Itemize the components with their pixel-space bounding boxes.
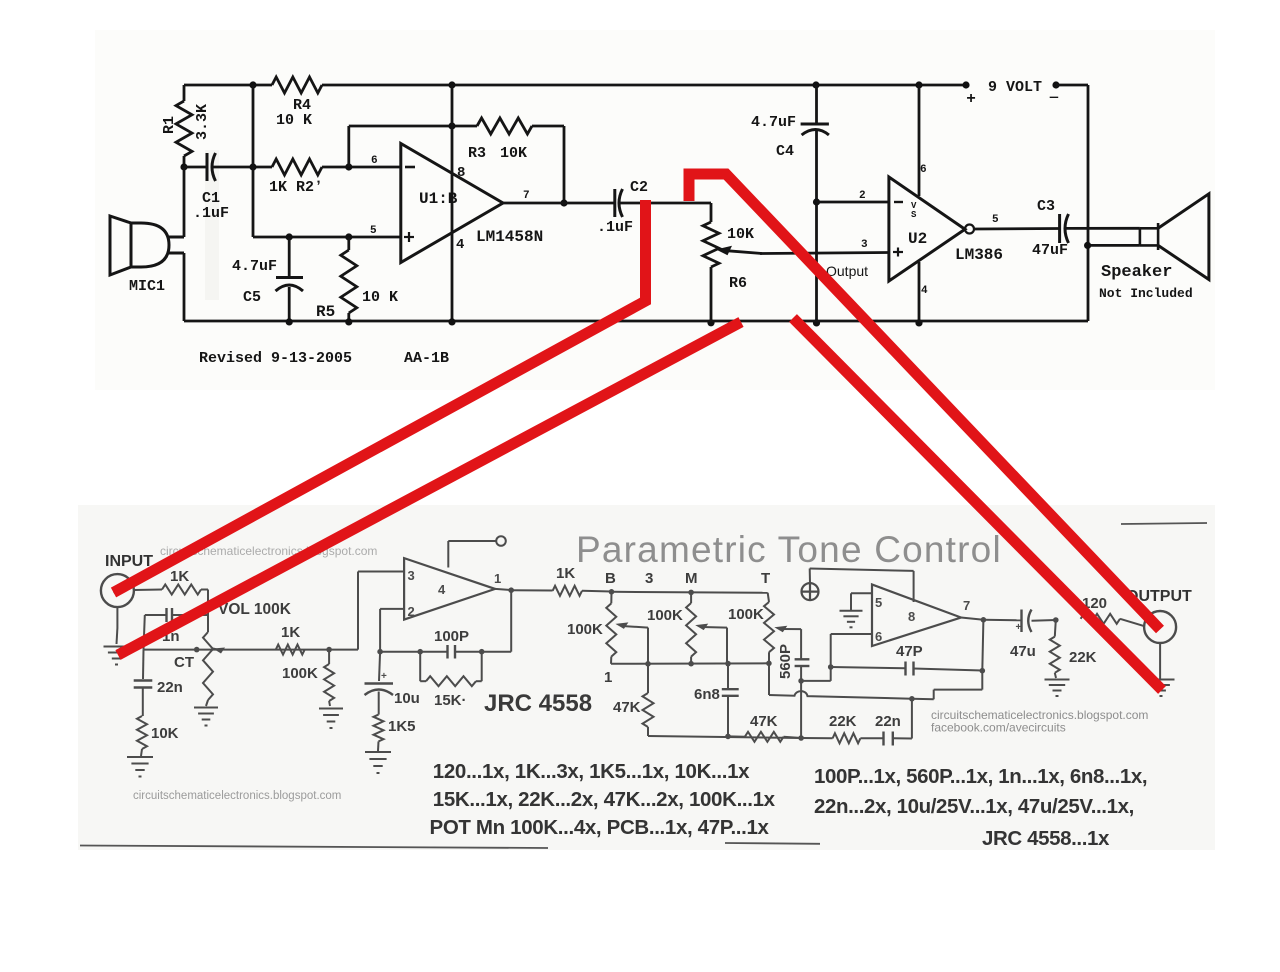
capacitor C3 [1058, 214, 1061, 243]
T wiper [774, 626, 787, 633]
svg-text:47u: 47u [1010, 643, 1036, 660]
svg-text:1K: 1K [170, 568, 189, 585]
resistor 10K input [137, 716, 147, 749]
wire mic top terminal [168, 236, 184, 239]
capacitor 6n8 [727, 664, 729, 690]
wire bias to pin5 [253, 236, 401, 239]
node R4 right / V+ [448, 81, 455, 88]
svg-text:C2: C2 [630, 179, 648, 196]
svg-text:INPUT: INPUT [105, 553, 153, 570]
resistor 1K second [276, 645, 305, 655]
svg-text:C4: C4 [776, 143, 794, 160]
red annotation line: R6 bottom to output ground [793, 318, 1162, 690]
svg-text:47K: 47K [750, 713, 778, 730]
wire A1 output [495, 589, 511, 590]
svg-text:22n: 22n [875, 713, 901, 730]
svg-text:U1:B: U1:B [419, 190, 458, 208]
ground 100K shunt [319, 709, 343, 729]
node C4/pin2 [813, 198, 820, 205]
bus 1 [611, 662, 769, 665]
wire mic bottom to ground rail [183, 253, 186, 321]
svg-text:47P: 47P [896, 643, 923, 660]
svg-text:6: 6 [371, 155, 378, 167]
red annotation line: R6 top to INPUT jack [114, 200, 646, 593]
svg-text:T: T [761, 570, 770, 587]
bottom bus [648, 736, 801, 738]
wire U1 power vertical pins 8/4 [451, 85, 454, 321]
wire R3 right [532, 125, 564, 128]
speaker (driver + cone) [1139, 228, 1142, 245]
red annotation line: input ground to R6 bottom [118, 322, 741, 655]
ground 22K [1045, 680, 1070, 697]
svg-text:22K: 22K [829, 713, 857, 730]
wire ground rail [184, 320, 1088, 323]
battery - terminal [1052, 81, 1059, 88]
resistor 22K output [1055, 620, 1056, 637]
wire C2 to R6 [620, 202, 711, 205]
svg-text:LM386: LM386 [955, 246, 1003, 264]
svg-text:1: 1 [494, 571, 501, 586]
capacitor C1 [206, 153, 209, 181]
svg-text:U2: U2 [908, 230, 927, 248]
T bottom path with hop [769, 691, 912, 699]
wire top rail to + terminal [322, 84, 966, 87]
svg-text:100P: 100P [434, 628, 469, 645]
node C4 top [812, 81, 819, 88]
wire speaker return [1088, 244, 1140, 247]
node speaker return [1084, 242, 1091, 249]
battery + terminal [962, 81, 969, 88]
ground output jack [1148, 680, 1175, 697]
R6 wiper arrow [728, 251, 762, 254]
resistor R5 [347, 237, 350, 250]
svg-text:1K5: 1K5 [388, 718, 416, 735]
node U2 pin4 bottom [915, 319, 922, 326]
wire right vertical to ground rail [1087, 85, 1090, 321]
svg-text:4: 4 [456, 237, 464, 253]
border fragment top-right [1121, 523, 1207, 524]
svg-text:VOL 100K: VOL 100K [218, 601, 292, 618]
svg-text:POT Mn 100K...4x, PCB...1x, 47: POT Mn 100K...4x, PCB...1x, 47P...1x [430, 816, 770, 839]
ground VOL [194, 708, 218, 726]
svg-text:560P: 560P [777, 644, 794, 679]
U2 minus input [894, 201, 903, 203]
U1 minus input [405, 166, 415, 169]
svg-text:5: 5 [875, 595, 882, 610]
svg-text:Output: Output [826, 263, 868, 279]
svg-text:+: + [1016, 622, 1022, 633]
svg-text:S: S [911, 210, 917, 220]
wire R6 wiper to U2 pin3 [760, 253, 889, 254]
svg-text:2: 2 [408, 604, 415, 619]
svg-text:.1uF: .1uF [193, 205, 229, 222]
border fragment bottom-mid [725, 842, 820, 845]
power symbol circle-plus [802, 583, 819, 600]
resistor 100K shunt [328, 650, 330, 664]
capacitor 560P [800, 629, 802, 659]
capacitor 1n [145, 614, 166, 616]
potentiometer 100K T [768, 593, 769, 602]
capacitor C5 [288, 237, 291, 276]
svg-text:.1uF: .1uF [597, 219, 633, 236]
svg-text:5: 5 [992, 214, 999, 226]
svg-text:+: + [966, 90, 976, 108]
resistor 47K bottom [745, 732, 784, 742]
node R4 left / bias [249, 81, 256, 88]
svg-text:120...1x, 1K...3x, 1K5...1x, 1: 120...1x, 1K...3x, 1K5...1x, 10K...1x [433, 760, 750, 783]
svg-text:Parametric Tone Control: Parametric Tone Control [576, 529, 1002, 570]
wire - terminal to right vertical [1056, 84, 1088, 87]
node U1 pin4 bottom [448, 318, 455, 325]
wire U2 pin2 [817, 201, 889, 204]
potentiometer 100K M [690, 592, 692, 603]
svg-text:1K: 1K [556, 565, 575, 582]
svg-text:10 K: 10 K [362, 289, 398, 306]
resistor 1K third [511, 589, 552, 591]
svg-text:10u: 10u [394, 690, 420, 707]
potentiometer 100K B [610, 592, 612, 604]
resistor 1K input [162, 585, 201, 595]
A1 power stub [447, 541, 449, 568]
wire feedback R3 left [347, 126, 350, 167]
svg-text:R3: R3 [468, 145, 486, 162]
svg-text:Not Included: Not Included [1099, 286, 1193, 301]
resistor 15K loop [419, 652, 421, 682]
wire fb to pin2 node [380, 651, 420, 653]
svg-text:circuitschematicelectronics.bl: circuitschematicelectronics.blogspot.com [133, 790, 341, 802]
output jack [1144, 611, 1176, 643]
B wiper [615, 622, 628, 629]
op-amp U1:B [401, 144, 503, 263]
wire U2 pin6 [918, 85, 921, 196]
svg-text:22K: 22K [1069, 649, 1097, 666]
U2 plus input [893, 251, 903, 253]
capacitor C4 [815, 85, 818, 123]
wire pin6 riser [801, 680, 831, 682]
svg-text:22n: 22n [157, 679, 183, 696]
wire wiper bus [144, 649, 359, 651]
node R2/R3 junction [345, 163, 352, 170]
svg-text:M: M [685, 570, 698, 587]
svg-text:6: 6 [875, 629, 882, 644]
microphone MIC1 [110, 216, 131, 275]
wire CT column [144, 615, 145, 650]
red annotation line: R6 bracket to OUTPUT jack [689, 174, 1160, 630]
svg-text:3: 3 [861, 239, 868, 251]
wire U2 pin4 [918, 262, 921, 322]
capacitor 47P [831, 667, 906, 668]
svg-text:+: + [381, 671, 387, 682]
svg-text:15K...1x, 22K...2x, 47K...2x,: 15K...1x, 22K...2x, 47K...2x, 100K...1x [433, 788, 776, 811]
svg-text:10K: 10K [500, 145, 527, 162]
wire 1K to pot top [201, 589, 208, 591]
feedback drop [510, 590, 512, 652]
svg-text:47uF: 47uF [1032, 242, 1068, 259]
svg-text:100K: 100K [647, 607, 683, 624]
node R5 bottom [345, 318, 352, 325]
wire top rail left segment [184, 84, 272, 87]
svg-text:100K: 100K [728, 606, 764, 623]
node 1K/100K [326, 647, 332, 653]
resistor R1 [183, 85, 186, 101]
node C5 top [286, 233, 293, 240]
op-amp U2 [889, 177, 965, 281]
svg-text:MIC1: MIC1 [129, 278, 165, 295]
svg-text:CT: CT [174, 654, 194, 671]
svg-text:15K·: 15K· [434, 692, 467, 709]
resistor R4 [272, 77, 322, 93]
wire A1 pin2 [380, 608, 404, 610]
wire jack to 1K [134, 589, 162, 592]
svg-text:C5: C5 [243, 289, 261, 306]
svg-text:7: 7 [523, 190, 530, 202]
op-amp A2 [872, 585, 961, 647]
wire mic bottom terminal [168, 252, 184, 255]
svg-text:3.3K: 3.3K [194, 104, 211, 140]
capacitor 100P [455, 651, 482, 653]
svg-text:6: 6 [920, 164, 927, 176]
wire to A1 pin3 [357, 572, 359, 650]
ground 1K5 [365, 752, 391, 773]
svg-text:4.7uF: 4.7uF [232, 258, 277, 275]
capacitor 22n input [134, 679, 153, 681]
ground input jack [104, 647, 130, 665]
U2 output bubble [965, 225, 974, 234]
wire bias vertical [252, 85, 255, 237]
resistor R2 [272, 159, 322, 175]
svg-text:4.7uF: 4.7uF [751, 114, 796, 131]
wire C1 left [184, 166, 207, 169]
svg-text:2: 2 [859, 190, 866, 202]
capacitor 10u [379, 652, 380, 681]
op-amp A1 [404, 558, 495, 620]
resistor 47K left [647, 664, 649, 693]
node C1/R1/mic [180, 163, 187, 170]
top bus B-M-T [609, 589, 615, 595]
svg-text:9 VOLT: 9 VOLT [988, 79, 1042, 96]
wire C3 to speaker [1066, 227, 1140, 230]
wire R2 to inverting node [322, 166, 401, 169]
svg-text:1K R2ʼ: 1K R2ʼ [269, 179, 323, 196]
svg-text:4: 4 [438, 582, 446, 597]
resistor R3 [477, 118, 532, 134]
node C4 bottom [813, 319, 820, 326]
M wiper [695, 624, 708, 631]
wire jack to ground [116, 607, 118, 628]
node U2 pin6 top [915, 81, 922, 88]
capacitor C2 [613, 189, 616, 217]
svg-text:3: 3 [645, 570, 653, 587]
wire U2 output to C3 [974, 227, 1060, 230]
wire jack to ground [1159, 643, 1161, 679]
svg-text:5: 5 [370, 225, 377, 237]
resistor 120 [1081, 614, 1120, 624]
svg-text:LM1458N: LM1458N [476, 228, 543, 246]
svg-text:Speaker: Speaker [1101, 263, 1172, 282]
svg-text:facebook.com/avecircuits: facebook.com/avecircuits [931, 721, 1066, 735]
svg-text:100K: 100K [567, 621, 603, 638]
border fragment bottom-left [80, 846, 548, 849]
svg-text:100K: 100K [282, 665, 318, 682]
svg-text:3: 3 [408, 568, 415, 583]
wire 22n riser [911, 699, 913, 739]
svg-text:JRC 4558: JRC 4558 [484, 690, 592, 717]
svg-text:8: 8 [457, 165, 465, 181]
node bias crossing [249, 163, 256, 170]
resistor 22K bottom [801, 737, 833, 739]
svg-text:R1: R1 [161, 116, 178, 134]
node R3/output [560, 199, 567, 206]
wire C1 to R2 [213, 166, 272, 169]
ground pin5 [840, 611, 863, 628]
svg-text:B: B [605, 570, 616, 587]
svg-text:22n...2x, 10u/25V...1x, 47u/25: 22n...2x, 10u/25V...1x, 47u/25V...1x, [814, 795, 1134, 818]
svg-text:10K: 10K [727, 226, 754, 243]
potentiometer R6 [710, 203, 713, 222]
wire U1 output [503, 202, 615, 205]
capacitor 22n bottom [860, 737, 883, 739]
input jack [101, 574, 134, 607]
svg-text:47K: 47K [613, 699, 641, 716]
svg-text:8: 8 [908, 609, 915, 624]
svg-text:10 K: 10 K [276, 112, 312, 129]
svg-text:JRC 4558...1x: JRC 4558...1x [982, 827, 1110, 850]
node R3/V+ crossing [448, 122, 455, 129]
svg-text:C3: C3 [1037, 198, 1055, 215]
resistor 1K5 [374, 715, 384, 742]
svg-text:Revised 9-13-2005: Revised 9-13-2005 [199, 350, 352, 367]
svg-text:6n8: 6n8 [694, 686, 720, 703]
node R6 bottom [707, 319, 714, 326]
potentiometer VOL 100K [203, 632, 213, 700]
svg-text:100P...1x, 560P...1x, 1n...1x,: 100P...1x, 560P...1x, 1n...1x, 6n8...1x, [814, 765, 1147, 788]
svg-text:R6: R6 [729, 275, 747, 292]
wire 560P node to bottom bus [800, 681, 802, 738]
node wiper [194, 647, 200, 653]
svg-text:AA-1B: AA-1B [404, 350, 449, 367]
ground 10K chain [127, 757, 153, 777]
svg-text:7: 7 [963, 598, 970, 613]
svg-text:1: 1 [604, 669, 612, 686]
capacitor 47u [983, 619, 1021, 622]
node R5 top [345, 233, 352, 240]
node C5 bottom [286, 318, 293, 325]
svg-text:—: — [1049, 90, 1059, 106]
wire A2 output [961, 618, 983, 620]
svg-text:10K: 10K [151, 725, 179, 742]
U1 plus input [404, 236, 414, 238]
VOL wiper arrow [213, 648, 225, 654]
wire mic top to C1 node [183, 167, 186, 237]
svg-text:1K: 1K [281, 624, 300, 641]
svg-text:R5: R5 [316, 303, 335, 321]
svg-text:4: 4 [921, 285, 928, 297]
wire power to pin8 [809, 569, 811, 584]
